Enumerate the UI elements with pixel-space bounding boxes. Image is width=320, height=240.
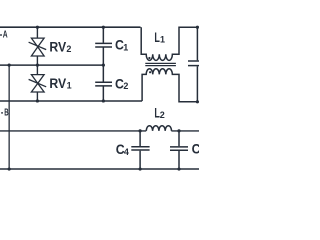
L1 phase dot top — [148, 57, 150, 59]
svg-text:4: 4 — [124, 147, 129, 157]
wire line B bus — [0, 100, 142, 102]
wire RV2 top stub — [36, 27, 38, 38]
node L2 left / C4 top — [139, 129, 142, 132]
svg-text:C: C — [192, 142, 199, 157]
inductor L1 top winding (line A path) — [141, 27, 197, 60]
svg-text:A: A — [3, 30, 8, 41]
node C4 bottom on ground — [139, 167, 142, 170]
svg-text:1: 1 — [67, 81, 72, 91]
wire C2 top lead — [102, 65, 104, 82]
varistor RV1 — [29, 75, 47, 92]
node output B — [196, 100, 199, 103]
inductor L1 bottom winding (line B path) — [142, 69, 197, 102]
svg-text:RV: RV — [49, 76, 66, 91]
node C5 bottom on ground — [177, 167, 180, 170]
svg-text:1: 1 — [123, 42, 128, 52]
capacitor C1 plates — [95, 43, 112, 47]
node RV junction on mid bus — [36, 64, 39, 67]
L1 phase dot bottom — [149, 71, 151, 73]
node RV2 top on line A — [36, 26, 39, 29]
node C1 top on line A — [102, 26, 105, 29]
svg-text:2: 2 — [123, 81, 128, 91]
varistor RV2 — [29, 38, 47, 56]
wire PE line right of L2 — [171, 130, 199, 132]
inductor L2 — [146, 126, 171, 131]
wire line A (top bus) — [0, 26, 141, 28]
wire C1 bottom lead — [102, 48, 104, 66]
capacitor C4 — [131, 131, 149, 169]
wire RV1 bottom stub — [36, 92, 38, 101]
capacitor C3 (output X-cap, cropped at right edge) — [188, 27, 199, 102]
svg-text:2: 2 — [160, 110, 165, 120]
node RV1 bottom on line B — [36, 99, 39, 102]
wire left vertical (mid bus to ground) — [8, 65, 10, 169]
wire RV1 top stub — [36, 65, 38, 74]
wire RV2 bottom stub — [36, 56, 38, 65]
capacitor C5 — [170, 131, 188, 169]
svg-text:1: 1 — [160, 35, 165, 45]
svg-text:B: B — [4, 108, 8, 119]
node output A — [196, 26, 199, 29]
wire C2 bottom lead — [102, 86, 104, 101]
node left vertical on ground bus — [8, 167, 11, 170]
wire PE line left of L2 — [0, 130, 146, 132]
node C2 bottom on line B — [102, 99, 105, 102]
inductor L1 core — [145, 63, 176, 65]
node mid bus to left vertical — [8, 64, 11, 67]
svg-text:2: 2 — [66, 44, 71, 54]
label line B — [1, 112, 3, 114]
wire ground bus — [0, 168, 199, 170]
capacitor C2 plates — [95, 82, 112, 86]
node C1/C2 junction on mid bus — [102, 64, 105, 67]
wire C1 top lead — [102, 27, 104, 43]
label line A — [0, 34, 2, 36]
svg-text:RV: RV — [49, 39, 66, 54]
node L2 right / C5 top — [177, 129, 180, 132]
wire mid bus (RV/C midpoint) — [0, 64, 104, 66]
